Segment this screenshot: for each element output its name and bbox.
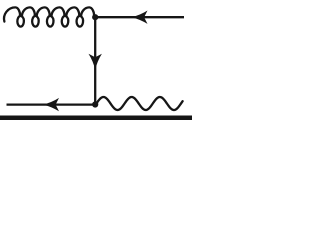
wire: outgoing fermion line bottom left (7, 103, 96, 105)
arrowhead on top fermion line (pointing left) (132, 11, 148, 24)
photon wavy line from bottom vertex to right (95, 97, 182, 110)
vertex dot top (gluon-quark vertex) (92, 14, 98, 20)
arrowhead on vertical fermion line (pointing down) (89, 54, 102, 70)
wire: incoming fermion line top right (95, 16, 184, 18)
gluon line (curly coil) from left edge to top vertex (4, 7, 94, 26)
arrowhead on bottom fermion line (pointing left) (43, 98, 59, 111)
thick black bar at bottom edge (0, 116, 192, 121)
vertex dot bottom (photon-quark vertex) (92, 101, 98, 107)
Feynman diagram: gluon radiating quark line emitting photon (0, 0, 192, 120)
wire: internal fermion propagator (vertical) (94, 17, 96, 104)
